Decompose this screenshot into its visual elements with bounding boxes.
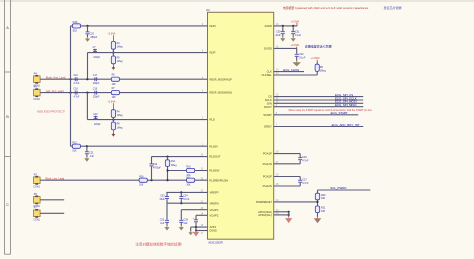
svg-text:CON1: CON1 (33, 220, 40, 222)
ground arrow digital ground (195, 231, 197, 233)
svg-text:1Meg: 1Meg (320, 69, 327, 72)
wire CLKSEL net (274, 74, 318, 76)
svg-text:VCAP2: VCAP2 (210, 213, 219, 217)
U2 pin 7 DRDY (264, 125, 278, 129)
capacitor C29 polarized (193, 215, 198, 227)
U2 pin 21 VREFN (201, 201, 219, 205)
power -2.5VA arrow below R5 (112, 63, 116, 70)
node junction line2 at W1 (69, 92, 71, 94)
frame zone tick B/C (5, 156, 11, 158)
resistor R6 10K (111, 75, 119, 86)
ground arrow below C25 (166, 226, 168, 228)
U2 pin 19 VCAP2 (201, 213, 219, 217)
wire DGND stub (195, 227, 208, 231)
U2 pin 26 PGA2P (263, 175, 279, 179)
svg-text:ECG_ADC_RDY_INT: ECG_ADC_RDY_INT (332, 123, 360, 127)
U2 pin 23 GPIO2(SCL) (258, 213, 279, 217)
capacitor C27 4.7nF across PGA2 (274, 177, 309, 187)
wire ECG_SPI_MISO net (274, 103, 364, 107)
wire ECG_ADC_RDY_INT net (274, 123, 364, 127)
node junction line1 at divider A tap (86, 78, 88, 80)
ground arrow below C28 (180, 226, 182, 228)
svg-text:PGA1N: PGA1N (263, 162, 272, 166)
power +2.5VA divider B flag (107, 101, 115, 110)
node divider A midpoint (112, 52, 114, 54)
svg-text:1Meg: 1Meg (117, 127, 124, 129)
capacitor C25 1uF (160, 203, 169, 226)
U2 pin 22 VREFP (201, 191, 219, 195)
svg-text:B: B (6, 115, 9, 119)
svg-text:RLDOUT: RLDOUT (210, 155, 221, 159)
svg-text:220pF: 220pF (93, 57, 100, 59)
svg-text:RLDIN: RLDIN (210, 144, 218, 148)
svg-text:4.7nF: 4.7nF (302, 160, 309, 163)
wire R14 bottom to RLD main (166, 166, 168, 181)
resistor R14 1Meg (165, 157, 177, 167)
svg-text:ECG_SPI_MISO: ECG_SPI_MISO (335, 103, 357, 107)
svg-text:PGA2N: PGA2N (263, 184, 272, 188)
wire CLK net (274, 71, 304, 73)
connector P3 right leg (33, 173, 40, 188)
wire P7 stub (40, 212, 64, 214)
svg-text:C19: C19 (93, 88, 98, 90)
svg-text:10K: 10K (112, 84, 117, 86)
svg-text:U2: U2 (206, 8, 210, 12)
power +1.8VD flag at CLKSEL pullup (311, 56, 320, 62)
U2 pin 10 DIN (267, 101, 279, 105)
svg-text:10K: 10K (321, 210, 326, 213)
U2 pin 15 DVDD (264, 47, 279, 51)
resistor R7 10K (111, 88, 119, 99)
power +2.5VA flag at AVDD (291, 19, 300, 26)
capacitor C28 1uF (179, 210, 188, 226)
wire VCAP1 net (181, 209, 207, 211)
svg-text:DOUT: DOUT (264, 105, 272, 109)
U2 pin 24 PWDN/RESET (256, 200, 279, 204)
op-amp U2 ADS1292R body (208, 12, 274, 239)
wire VREFP net (166, 191, 207, 193)
svg-text:RESP_MODP/IN1P: RESP_MODP/IN1P (210, 77, 233, 81)
svg-text:4.7uF: 4.7uF (73, 83, 80, 85)
wire IN1P input line (40, 78, 207, 80)
svg-text:Right_Leg_Lead: Right_Leg_Lead (45, 177, 65, 181)
U2 pin 18 AVSS (201, 225, 217, 229)
resistor R8 1Meg (111, 118, 123, 130)
wire ECG_SPI_MOSI net (274, 100, 364, 104)
wire VREFN net (167, 202, 208, 204)
svg-text:220pF: 220pF (94, 124, 101, 126)
U2 pin 32 RLDOUT (201, 155, 221, 159)
wire divider A to IN1P branch (87, 53, 89, 80)
svg-text:DGND: DGND (210, 230, 218, 233)
wire divider B branch from line2 (87, 93, 207, 120)
resistor R10 51K (72, 20, 80, 32)
svg-text:51K: 51K (72, 150, 77, 152)
wire VCAP2 net (196, 214, 208, 216)
connector P6 spare (33, 193, 40, 208)
wire RLDOUT net (152, 156, 208, 158)
svg-text:4.7uF: 4.7uF (73, 96, 80, 98)
svg-text:ECG_CLKIN: ECG_CLKIN (283, 68, 299, 72)
svg-text:10K: 10K (321, 197, 326, 200)
svg-text:GPIO2(SCL): GPIO2(SCL) (258, 214, 272, 217)
svg-text:1Meg: 1Meg (117, 47, 124, 49)
node junction at C21 tap (86, 145, 88, 147)
U2 pin 31 RLDINV (201, 169, 220, 173)
node divider B midpoint (112, 119, 114, 121)
node junction line1 at W1 (69, 78, 71, 80)
frame left inner line (10, 0, 12, 254)
node junction C31 (292, 25, 294, 27)
U2 pin 4 RESP_MODP/IN1P (202, 77, 232, 81)
U2 pin 1 RLDIN (202, 144, 218, 148)
svg-text:C21: C21 (89, 152, 94, 154)
wire RLDIN net (71, 145, 208, 147)
resistor R3 1Meg (111, 41, 123, 49)
svg-text:ADS1292R: ADS1292R (208, 241, 222, 245)
capacitor C7 220pF (93, 47, 101, 59)
svg-text:AVDD: AVDD (265, 24, 272, 28)
svg-text:+2.5VA: +2.5VA (291, 19, 300, 23)
svg-text:10K: 10K (112, 97, 117, 99)
capacitor C19 220pF (93, 88, 100, 98)
U2 pin 12 CS (268, 95, 279, 99)
svg-text:VREFP: VREFP (210, 191, 219, 195)
wire ECG_START net (274, 111, 359, 115)
U2 pin 2 RLD (202, 118, 215, 122)
capacitor C23 10uF (159, 192, 169, 203)
frame bottom tick (5, 253, 11, 255)
resistor R20 10K (315, 193, 326, 200)
svg-text:ADD ESD PROTECT!: ADD ESD PROTECT! (37, 110, 65, 114)
svg-text:DIN: DIN (267, 101, 272, 105)
capacitor C30 10uF (275, 26, 284, 37)
node junction RLDOUT at R14 (166, 156, 168, 158)
svg-text:0.1uF: 0.1uF (295, 34, 302, 37)
ground arrow below R21 (314, 213, 322, 224)
svg-text:Right_Arm_Lead: Right_Arm_Lead (46, 76, 66, 80)
svg-text:CLK: CLK (267, 70, 272, 74)
connector P4 right arm (33, 72, 40, 87)
svg-text:51K: 51K (73, 28, 78, 32)
frame zone tick A/B (5, 71, 11, 73)
capacitor C31 0.1uF (291, 26, 301, 37)
svg-text:R15: R15 (186, 167, 191, 169)
wire DVDD net (274, 47, 297, 49)
svg-text:去耦电容靠近IC管脚: 去耦电容靠近IC管脚 (305, 43, 332, 48)
U2 pin 17 DGND (201, 230, 217, 235)
ground arrow below C32 (296, 61, 298, 63)
svg-text:4.7uF: 4.7uF (183, 198, 190, 201)
svg-text:PGA2P: PGA2P (263, 175, 272, 179)
svg-text:IN2P: IN2P (210, 51, 216, 55)
resistor R17 10K (186, 177, 194, 187)
svg-text:DVDD: DVDD (264, 47, 272, 51)
wire ECG_SPI_CS net (274, 93, 364, 97)
ground arrow below C31 (292, 37, 294, 39)
svg-text:CON1: CON1 (33, 99, 40, 101)
U2 pin 6 IN2N (202, 24, 216, 28)
svg-text:C26: C26 (302, 156, 307, 159)
svg-text:1Meg: 1Meg (117, 115, 124, 117)
svg-text:R16: R16 (139, 176, 144, 178)
U2 pin 28 PGA1P (263, 152, 279, 156)
svg-text:注意对模拟地和数字地的处理!: 注意对模拟地和数字地的处理! (135, 241, 181, 246)
wire AVSS stub (191, 226, 208, 228)
svg-text:1Meg: 1Meg (117, 61, 124, 63)
svg-text:10K: 10K (139, 184, 144, 186)
capacitor C32 0.1uF (295, 48, 306, 61)
svg-text:ECG_START: ECG_START (331, 111, 348, 115)
svg-text:SCL_PWDN: SCL_PWDN (330, 186, 346, 190)
svg-text:VREFN: VREFN (210, 201, 219, 205)
svg-text:1Meg: 1Meg (171, 165, 178, 167)
resistor R21 10K (315, 206, 326, 213)
svg-text:PGA1P: PGA1P (263, 152, 272, 156)
svg-text:220pF: 220pF (93, 96, 100, 98)
svg-text:10uF: 10uF (275, 34, 281, 37)
node junction line2 at divider B tap (86, 92, 88, 94)
capacitor C22 4700pF in riser (150, 157, 162, 181)
capacitor C26 4.7nF across PGA1 (274, 154, 309, 164)
resistor R4 1Meg (111, 110, 123, 118)
ground arrow below C30 (282, 37, 284, 39)
wire IN2N bias net (88, 52, 208, 54)
svg-text:RLDREF/RLDIN: RLDREF/RLDIN (210, 178, 229, 182)
capacitor C20 680pF (86, 26, 98, 39)
wire AVDD net (274, 25, 298, 27)
svg-text:10K: 10K (186, 185, 191, 187)
svg-text:10uF: 10uF (159, 198, 165, 201)
svg-text:+3.3VD: +3.3VD (291, 43, 300, 47)
U2 pin 5 IN2P (202, 51, 216, 55)
resistor R15 10K (186, 167, 194, 177)
ground arrow analog ground (188, 227, 193, 235)
svg-text:A: A (6, 26, 9, 30)
svg-text:+2.5VA: +2.5VA (107, 33, 115, 36)
note top-right supply bypass text (283, 5, 402, 10)
power +2.5VA divider A flag (107, 33, 115, 42)
U2 pin 23 GPIO1(SDA) (258, 210, 279, 214)
capacitor C18 4.7uF (73, 88, 80, 98)
svg-text:RLD: RLD (210, 118, 215, 122)
svg-text:IN2N: IN2N (210, 24, 216, 28)
capacitor C21 1nF (85, 146, 94, 158)
svg-text:1uF: 1uF (160, 222, 165, 225)
connector P7 spare (33, 206, 40, 221)
svg-text:RESP_MODN/IN1N: RESP_MODN/IN1N (210, 91, 233, 95)
svg-text:1nF: 1nF (90, 156, 95, 158)
svg-text:+1.8VD: +1.8VD (311, 56, 320, 60)
node junction at C20 tap (86, 25, 88, 27)
U2 pin 3 RESP_MODN/IN1N (202, 91, 232, 95)
U2 pin 9 DOUT (264, 105, 278, 109)
wire GPIO2 stub (274, 212, 290, 217)
capacitor C16 4.7uF (73, 75, 80, 85)
connector P5 left arm (33, 86, 40, 101)
svg-text:C22: C22 (153, 164, 158, 166)
U2 pin 16 AVDD (265, 24, 280, 28)
resistor R16 10K (139, 176, 147, 186)
svg-text:R12: R12 (72, 142, 77, 144)
svg-text:4700pF: 4700pF (153, 168, 161, 170)
wire ECG_SPI_SCLK net (274, 96, 364, 100)
svg-text:START: START (263, 113, 272, 117)
wire RLDINV net (168, 170, 208, 172)
node junction C24 bottom (180, 202, 182, 204)
svg-text:C18: C18 (73, 88, 78, 90)
power +3.3VD flag at DVDD (291, 43, 300, 48)
svg-text:PWDN/RESET: PWDN/RESET (256, 201, 272, 204)
capacitor C24 4.7uF (179, 192, 190, 203)
resistor R9 1Meg pullup (315, 62, 326, 75)
ground arrow below C20 (87, 37, 89, 39)
wire GPIO1 stub (274, 211, 290, 213)
ground arrow below GPIO (288, 217, 290, 219)
svg-text:C27: C27 (302, 179, 307, 182)
ground arrow below C21 (86, 157, 88, 159)
svg-text:C17: C17 (93, 75, 98, 77)
svg-text:VCAP1: VCAP1 (210, 208, 219, 212)
svg-text:C20: C20 (90, 33, 95, 35)
U2 pin 25 PGA2N (263, 184, 279, 188)
svg-text:R14: R14 (171, 161, 176, 163)
node junction C24 top (180, 191, 182, 193)
U2 pin 14 CLK (267, 70, 280, 74)
svg-text:+2.5VA: +2.5VA (107, 101, 115, 104)
power -2.5VA arrow below R8 (112, 130, 116, 137)
resistor R12 51K (72, 142, 80, 152)
node junction C30 (282, 25, 284, 27)
resistor R5 1Meg (111, 49, 123, 64)
wire RLDREF main net (40, 179, 207, 181)
svg-text:C16: C16 (73, 75, 78, 77)
svg-text:电源都要 bypassed with 10uF and a: 电源都要 bypassed with 10uF and a 0.1uF soli… (283, 6, 369, 10)
capacitor C13 220pF (93, 114, 101, 126)
wire IN1N input line (40, 92, 207, 94)
svg-text:靠近芯片管脚: 靠近芯片管脚 (384, 5, 402, 10)
sheet top border line (0, 0, 474, 2)
svg-text:1uF: 1uF (183, 222, 188, 225)
svg-text:R10: R10 (73, 20, 78, 24)
svg-text:680pF: 680pF (91, 37, 98, 39)
svg-text:0.1uF: 0.1uF (299, 57, 306, 60)
U2 pin 8 START (263, 113, 278, 117)
wire P6 stub (40, 199, 64, 201)
svg-text:CLKSEL: CLKSEL (261, 73, 272, 77)
svg-text:C13: C13 (93, 114, 98, 116)
capacitor C17 220pF (93, 75, 100, 85)
wire PWDN net (274, 201, 318, 203)
svg-text:220pF: 220pF (93, 83, 100, 85)
svg-text:4.7nF: 4.7nF (302, 182, 309, 185)
U2 pin 20 VCAP1 (201, 208, 219, 212)
node junction RLD riser (150, 179, 152, 181)
svg-text:Left_Arm_Lead: Left_Arm_Lead (46, 89, 64, 93)
node junction PWDN at divider (316, 200, 318, 206)
U2 pin 27 PGA1N (263, 162, 279, 166)
wire common lead bus W1 (70, 26, 72, 146)
frame left outer line (4, 0, 6, 254)
wire SCL_PWDN net (318, 186, 371, 193)
svg-text:CS: CS (268, 95, 272, 99)
svg-text:RLDINV: RLDINV (210, 169, 220, 173)
svg-text:CON1: CON1 (33, 187, 40, 189)
U2 pin 30 RLDREF/RLDIN (201, 178, 229, 182)
U2 pin 11 SCLK (265, 98, 279, 102)
svg-text:DRDY: DRDY (264, 125, 272, 129)
svg-text:C: C (6, 203, 9, 207)
U2 pin 13 CLKSEL (261, 73, 279, 77)
wire IN2P net (71, 25, 208, 27)
